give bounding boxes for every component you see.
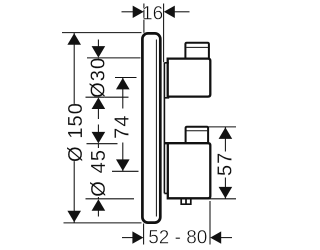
housing sleeve between plate and handles	[164, 63, 169, 194]
dimension Ø 45 (lower escutcheon diameter)	[86, 125, 135, 217]
svg-text:16: 16	[142, 3, 163, 24]
dimension Ø30 (upper handle diameter)	[86, 40, 141, 120]
dimension 16 (plate thickness, top)	[122, 4, 190, 63]
dimension 74 (handle spacing)	[112, 78, 139, 172]
escutcheon plate (side view, Ø150 round plate)	[142, 33, 160, 222]
svg-text:57: 57	[215, 152, 237, 176]
svg-text:52 - 80: 52 - 80	[148, 227, 207, 248]
bottom handle small cap box	[186, 127, 209, 144]
bottom handle clip detail	[181, 198, 191, 204]
bottom handle body	[164, 143, 210, 198]
svg-text:Ø30: Ø30	[88, 57, 110, 98]
dimension 57 (lower handle height, right)	[203, 127, 236, 199]
svg-text:Ø 150: Ø 150	[65, 102, 87, 162]
svg-text:Ø 45: Ø 45	[88, 149, 110, 197]
dimension 52 - 80 (installation depth, bottom)	[122, 201, 232, 245]
top handle body	[168, 59, 211, 97]
svg-text:74: 74	[112, 114, 134, 138]
top handle small cap box	[185, 43, 209, 59]
dimension Ø 150 (plate diameter, left)	[62, 33, 142, 223]
